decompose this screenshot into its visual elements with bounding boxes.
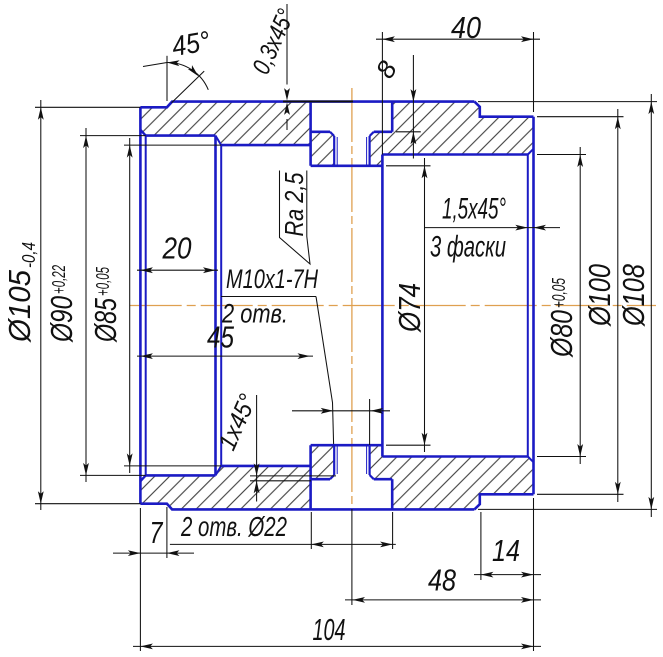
left bore back edge bbox=[145, 136, 147, 476]
ext line dim 14 left bbox=[480, 512, 482, 580]
hatch top-right wall bbox=[370, 102, 534, 166]
phi85 bore top surface bbox=[221, 144, 310, 147]
ext lines phi74 bbox=[386, 165, 431, 167]
dim 104 bbox=[133, 645, 541, 647]
dim 20 bbox=[137, 269, 218, 271]
45deg angle dimension arc bbox=[167, 62, 208, 89]
svg-text:48: 48 bbox=[428, 563, 457, 598]
dim phi80 bbox=[579, 147, 581, 464]
dim 7 bbox=[113, 552, 194, 554]
svg-text:104: 104 bbox=[313, 612, 346, 647]
right bore entrance chamfer 1.5x45 top bbox=[528, 149, 534, 155]
0,3x45 chamfer edge line (black) across counterbore bbox=[283, 100, 353, 102]
svg-text:Ø74: Ø74 bbox=[392, 283, 427, 333]
ext line hole axis down (48) bbox=[351, 509, 353, 605]
right bore chamfer back edge bbox=[527, 155, 529, 457]
dim M10 hole (outside arrows) bbox=[292, 410, 390, 412]
counterbore floor bottom hole bbox=[311, 478, 330, 481]
thread chamfers top hole bbox=[330, 132, 334, 136]
step chamfer top bbox=[216, 136, 222, 146]
svg-text:14: 14 bbox=[492, 533, 520, 568]
dim 1x45 (vertical, bottom hole chamfer) bbox=[256, 395, 258, 502]
top outer profile phi105 + 45deg chamfer + phi108 face bbox=[140, 102, 474, 108]
ext line dim 7 right bbox=[166, 507, 168, 558]
svg-text:2 отв.: 2 отв. bbox=[221, 299, 288, 329]
top right step phi108->phi100 bbox=[474, 102, 533, 117]
ext lines phi90 bbox=[80, 135, 146, 137]
svg-text:45°: 45° bbox=[169, 25, 212, 62]
dim phi105 bbox=[40, 100, 42, 510]
hatch bottom-right wall bbox=[370, 445, 534, 509]
ext line right face down (48/14/104) bbox=[533, 498, 535, 651]
bottom right step phi108->phi100 bbox=[474, 494, 533, 509]
step chamfer back edge bbox=[220, 145, 222, 466]
hole axis centerline bbox=[351, 88, 353, 506]
svg-text:7: 7 bbox=[150, 515, 164, 550]
hatch bottom-left wall bbox=[140, 445, 334, 509]
part axis centerline bbox=[130, 305, 656, 307]
dim 40 bbox=[376, 38, 540, 40]
M10 thread thin lines top hole bbox=[336, 137, 338, 166]
M10 thread thin lines bottom hole bbox=[336, 445, 338, 474]
svg-text:Ra 2,5: Ra 2,5 bbox=[279, 172, 309, 236]
svg-text:Ø108: Ø108 bbox=[616, 263, 651, 326]
1x45 ext lines (bottom hole chamfer) bbox=[250, 475, 336, 477]
thread chamfers bottom hole bbox=[330, 475, 334, 479]
left bore entrance chamfer bottom bbox=[140, 475, 145, 481]
svg-text:Ø100: Ø100 bbox=[582, 264, 617, 327]
dim 45 bbox=[137, 355, 313, 357]
dim phi108 bbox=[650, 94, 652, 517]
svg-text:М10х1-7Н: М10х1-7Н bbox=[226, 264, 318, 294]
left face bbox=[139, 107, 142, 503]
phi80 top surface bbox=[382, 153, 527, 156]
dim phi100 bbox=[617, 109, 619, 502]
M10 thread walls top hole bbox=[333, 136, 335, 166]
counterbore floor top hole bbox=[311, 131, 330, 134]
web left face / counterbore left wall top bbox=[309, 102, 312, 166]
dim phi22 / 2 otv shelf bbox=[170, 543, 396, 545]
web left face / counterbore left wall bottom bbox=[309, 445, 312, 509]
right bore entrance chamfer 1.5x45 bottom bbox=[528, 457, 534, 463]
step chamfer bottom bbox=[216, 466, 222, 476]
phi74/phi80 step edge bbox=[381, 155, 384, 457]
45deg vertical ext bbox=[166, 56, 168, 101]
bottom outer profile bbox=[140, 504, 474, 510]
left bore entrance chamfer top bbox=[140, 130, 145, 136]
svg-text:20: 20 bbox=[162, 231, 192, 266]
M10 leader shelf and leader bbox=[221, 296, 316, 298]
M10 thread walls bottom hole bbox=[333, 445, 335, 475]
Ra 2,5 roughness symbol bbox=[280, 171, 311, 265]
phi74 bottom surface bbox=[311, 444, 383, 447]
M10 dim right ext bbox=[369, 399, 371, 445]
phi74 top surface bbox=[311, 165, 383, 168]
dim phi74 bbox=[424, 158, 426, 452]
ext lines phi80 bbox=[537, 154, 586, 156]
ext lines phi22 counterbore bbox=[310, 512, 312, 549]
dim 14 bbox=[474, 574, 541, 576]
dim 1,5x45 (leader/dim line) bbox=[424, 227, 560, 229]
dim 8 (vertical) bbox=[412, 55, 414, 159]
ext lines dim 40 bbox=[381, 32, 383, 155]
dim phi90 bbox=[85, 128, 87, 482]
ext lines phi85 bbox=[124, 144, 221, 146]
45deg chamfer ext (diagonal) bbox=[172, 71, 205, 103]
dim 48 bbox=[345, 599, 541, 601]
ext lines phi105 bbox=[35, 106, 140, 108]
ext lines phi100 bbox=[537, 116, 624, 118]
phi90/phi85 step edge bbox=[214, 136, 217, 476]
phi85 bore bottom surface bbox=[221, 465, 310, 468]
svg-text:40: 40 bbox=[451, 10, 481, 45]
svg-text:3 фаски: 3 фаски bbox=[430, 231, 506, 264]
counterbore right wall bottom bbox=[391, 479, 394, 509]
ext line dim 8 (counterbore floor) bbox=[396, 131, 421, 133]
0,3x45 arrows bbox=[284, 88, 290, 101]
0,3x45 leader bbox=[286, 4, 288, 85]
right face bbox=[532, 117, 535, 495]
svg-text:1,5х45°: 1,5х45° bbox=[442, 193, 506, 226]
counterbore right wall top bbox=[391, 102, 394, 132]
hatch top-left wall bbox=[140, 102, 334, 166]
phi90 bore top surface bbox=[146, 134, 216, 137]
phi90 bore bottom surface bbox=[146, 474, 216, 477]
phi80 bottom surface bbox=[382, 455, 527, 458]
svg-text:2 отв. Ø22: 2 отв. Ø22 bbox=[180, 511, 287, 542]
dim phi85 bbox=[129, 138, 131, 473]
ext lines phi108 bbox=[478, 101, 657, 103]
ext line left face down (7/104) bbox=[139, 508, 141, 651]
